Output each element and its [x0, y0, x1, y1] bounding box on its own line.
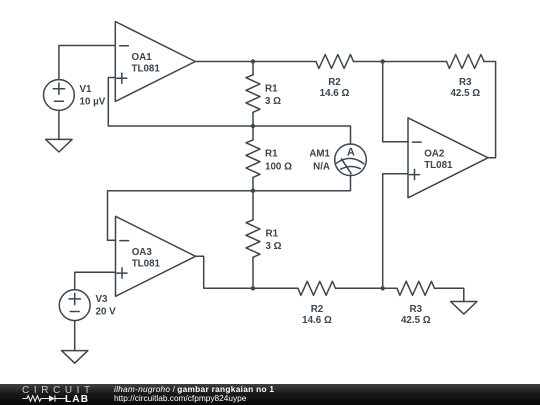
wire R3 to OA2 output feedback [484, 62, 496, 158]
resistor R1 100 ohm middle [246, 140, 260, 178]
wire OA3 non-inverting input to V3 [75, 272, 116, 290]
node dot B [381, 59, 385, 63]
svg-text:10 µV: 10 µV [80, 97, 106, 108]
svg-text:TL081: TL081 [424, 160, 453, 171]
wire V1 top to OA1 inverting input [59, 46, 115, 80]
wire R2 to R3 top row [354, 61, 447, 63]
wire node to OA2 inverting input [383, 62, 408, 142]
svg-text:R1: R1 [265, 149, 278, 160]
svg-text:AM1: AM1 [309, 149, 330, 160]
wire R1 bottom to node E [252, 257, 254, 288]
resistor R3 top [447, 55, 485, 69]
wire node A to R1 top [252, 62, 254, 75]
resistor R1 3 ohm top [246, 75, 260, 113]
wire R1 top to node C [252, 112, 254, 126]
svg-text:3 Ω: 3 Ω [266, 241, 282, 252]
ground bottom right [451, 302, 477, 315]
voltage source V3 [59, 290, 90, 321]
svg-text:3 Ω: 3 Ω [265, 96, 281, 107]
svg-text:R3: R3 [459, 77, 472, 88]
wire V3 bottom to ground [74, 321, 76, 351]
svg-text:100 Ω: 100 Ω [265, 161, 292, 172]
svg-text:R2: R2 [311, 304, 324, 315]
svg-text:R1: R1 [266, 229, 279, 240]
svg-text:N/A: N/A [313, 161, 330, 172]
op-amp OA3 [116, 216, 196, 296]
op-amp OA2 [408, 118, 488, 198]
wire R1 middle to node D [252, 177, 254, 190]
node dot D [251, 189, 255, 193]
svg-text:A: A [347, 146, 355, 158]
svg-text:OA2: OA2 [424, 149, 445, 160]
wire OA1 output to R2 [195, 61, 316, 63]
resistor R2 top [316, 55, 354, 69]
node dot C [251, 124, 255, 128]
node dot E [251, 286, 255, 290]
svg-text:TL081: TL081 [132, 64, 161, 75]
ground for V1 [46, 139, 72, 152]
svg-text:14.6 Ω: 14.6 Ω [302, 315, 332, 326]
wire V1 bottom to ground [58, 110, 60, 139]
resistor R1 3 ohm bottom [246, 220, 260, 257]
svg-text:14.6 Ω: 14.6 Ω [320, 88, 350, 99]
wire OA2 non-inverting input down to bottom row [383, 174, 408, 288]
svg-text:V1: V1 [80, 84, 93, 95]
node dot A [251, 59, 255, 63]
ground for V3 [61, 351, 87, 364]
svg-text:42.5 Ω: 42.5 Ω [401, 315, 431, 326]
wire node D to R1 bottom [252, 191, 254, 220]
svg-text:42.5 Ω: 42.5 Ω [450, 88, 480, 99]
op-amp OA1 [115, 22, 195, 102]
svg-text:TL081: TL081 [132, 259, 161, 270]
resistor R2 bottom [298, 281, 336, 295]
svg-text:R3: R3 [410, 304, 423, 315]
wire ammeter bottom to OA3 inverting input [108, 175, 351, 240]
wire OA1 non-inverting input feedback [108, 78, 350, 145]
voltage source V1 [44, 80, 75, 111]
wire bottom R3 to ground [435, 288, 464, 301]
svg-text:OA3: OA3 [132, 247, 153, 258]
wire OA3 output to bottom row [196, 256, 299, 288]
svg-text:R1: R1 [265, 84, 278, 95]
ammeter AM1 [335, 144, 367, 176]
node dot F [381, 286, 385, 290]
resistor R3 bottom [397, 281, 435, 295]
svg-text:R2: R2 [328, 77, 341, 88]
svg-text:20 V: 20 V [96, 307, 117, 318]
wire node C to R1 middle [252, 126, 254, 140]
wire bottom R2 to R3 [336, 287, 398, 289]
svg-text:OA1: OA1 [132, 52, 153, 63]
svg-text:V3: V3 [96, 294, 109, 305]
